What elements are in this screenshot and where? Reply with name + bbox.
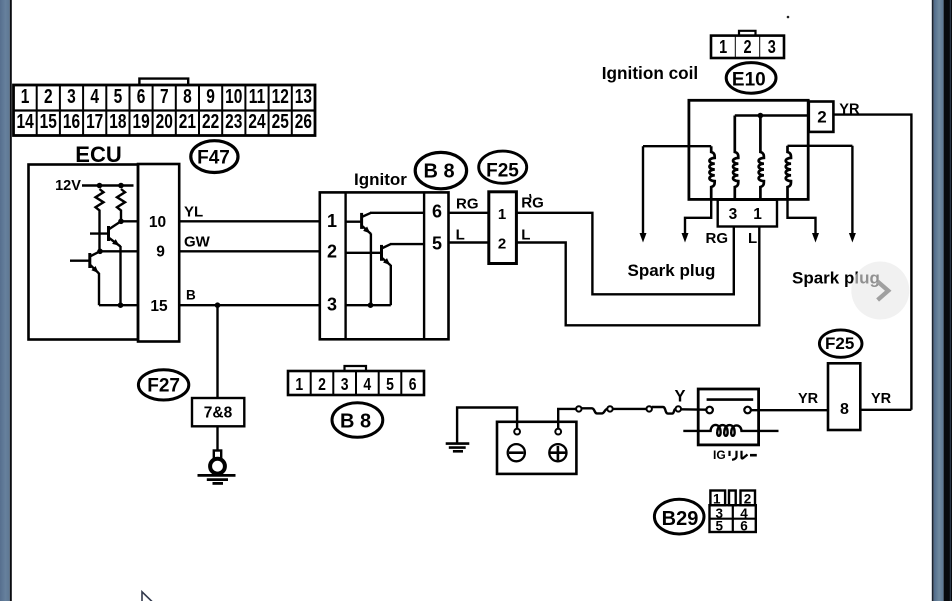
svg-text:Y: Y [674, 388, 685, 406]
svg-text:RG: RG [706, 230, 729, 247]
svg-text:Ignitor: Ignitor [354, 170, 407, 189]
svg-text:L: L [521, 227, 530, 244]
svg-text:6: 6 [137, 85, 146, 107]
svg-text:23: 23 [225, 110, 242, 132]
svg-text:2: 2 [327, 242, 337, 262]
svg-text:13: 13 [295, 85, 312, 107]
svg-text:1: 1 [719, 38, 727, 58]
svg-text:5: 5 [716, 519, 724, 534]
svg-text:1: 1 [753, 206, 762, 223]
svg-text:10: 10 [225, 85, 242, 107]
svg-text:3: 3 [768, 38, 776, 58]
svg-text:2: 2 [744, 492, 752, 507]
svg-text:5: 5 [386, 376, 394, 395]
svg-text:3: 3 [729, 206, 738, 223]
svg-text:5: 5 [432, 234, 442, 254]
svg-text:18: 18 [109, 110, 126, 132]
svg-text:F47: F47 [197, 148, 230, 169]
svg-text:GW: GW [184, 234, 211, 251]
svg-text:1: 1 [327, 211, 337, 231]
svg-text:2: 2 [743, 38, 751, 58]
svg-text:ECU: ECU [75, 142, 121, 167]
svg-text:B29: B29 [662, 508, 699, 530]
svg-text:F25: F25 [486, 161, 519, 182]
svg-text:B: B [186, 288, 196, 303]
svg-text:1: 1 [21, 85, 30, 107]
svg-text:3: 3 [327, 295, 337, 315]
svg-text:F27: F27 [147, 376, 180, 397]
svg-text:3: 3 [341, 376, 349, 395]
svg-text:8: 8 [183, 85, 192, 107]
svg-text:5: 5 [114, 85, 123, 107]
svg-text:6: 6 [740, 519, 748, 534]
svg-text:6: 6 [432, 202, 442, 222]
svg-text:2: 2 [44, 85, 53, 107]
svg-text:YR: YR [798, 391, 819, 407]
svg-text:14: 14 [16, 110, 33, 132]
svg-text:3: 3 [67, 85, 76, 107]
svg-text:8: 8 [840, 401, 849, 418]
svg-text:YR: YR [871, 391, 892, 407]
svg-text:25: 25 [272, 110, 289, 132]
svg-text:17: 17 [86, 110, 103, 132]
svg-text:F25: F25 [825, 334, 854, 353]
svg-text:1: 1 [498, 206, 506, 223]
svg-text:12V: 12V [55, 178, 81, 194]
svg-text:24: 24 [248, 110, 265, 132]
svg-text:B 8: B 8 [423, 161, 454, 183]
svg-text:7: 7 [160, 85, 169, 107]
svg-text:9: 9 [156, 244, 165, 261]
svg-text:10: 10 [149, 214, 166, 231]
svg-text:4: 4 [90, 85, 99, 107]
svg-text:22: 22 [202, 110, 219, 132]
svg-text:6: 6 [409, 376, 417, 395]
svg-text:L: L [748, 230, 757, 247]
svg-text:1: 1 [295, 376, 303, 395]
svg-text:9: 9 [206, 85, 215, 107]
svg-text:RG: RG [521, 195, 544, 212]
svg-text:7&8: 7&8 [204, 405, 233, 422]
svg-text:20: 20 [156, 110, 173, 132]
svg-text:26: 26 [295, 110, 312, 132]
svg-text:11: 11 [249, 85, 265, 107]
svg-text:15: 15 [150, 298, 168, 315]
svg-text:IG: IG [713, 448, 726, 462]
svg-text:Spark plug: Spark plug [628, 261, 716, 280]
svg-text:L: L [456, 227, 465, 244]
svg-text:RG: RG [456, 196, 479, 213]
svg-text:21: 21 [179, 110, 196, 132]
svg-text:YL: YL [184, 204, 203, 221]
svg-text:4: 4 [363, 376, 371, 395]
svg-text:E10: E10 [732, 70, 766, 91]
svg-text:Ignition coil: Ignition coil [602, 63, 698, 83]
svg-text:15: 15 [40, 110, 57, 132]
svg-text:2: 2 [817, 108, 826, 127]
svg-text:16: 16 [63, 110, 80, 132]
svg-text:B 8: B 8 [340, 411, 371, 433]
svg-text:12: 12 [272, 85, 289, 107]
svg-text:2: 2 [318, 376, 326, 395]
svg-text:1: 1 [713, 492, 721, 507]
svg-text:YR: YR [839, 102, 860, 118]
svg-text:19: 19 [132, 110, 149, 132]
svg-text:2: 2 [498, 236, 506, 253]
